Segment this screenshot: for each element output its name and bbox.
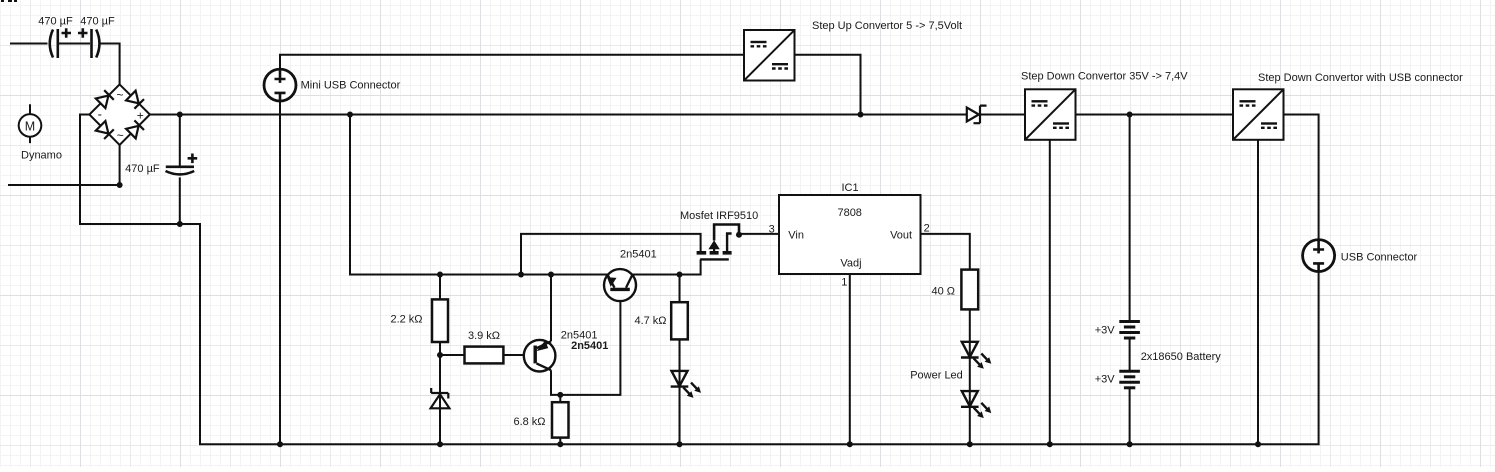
svg-text:~: ~ [116, 88, 123, 102]
svg-text:Power Led: Power Led [910, 370, 963, 382]
svg-text:2n5401: 2n5401 [571, 340, 608, 352]
svg-text:Mosfet IRF9510: Mosfet IRF9510 [680, 210, 758, 222]
svg-text:M: M [25, 120, 35, 134]
svg-text:Dynamo: Dynamo [21, 149, 62, 161]
svg-text:2n5401: 2n5401 [620, 249, 657, 261]
svg-text:2x18650 Battery: 2x18650 Battery [1141, 351, 1222, 363]
svg-text:2.2 kΩ: 2.2 kΩ [390, 313, 422, 325]
svg-text:7808: 7808 [837, 207, 861, 219]
svg-text:IC1: IC1 [841, 182, 858, 194]
svg-text:470 µF: 470 µF [125, 163, 160, 175]
svg-text:~: ~ [117, 128, 124, 142]
svg-text:Step Up Convertor 5 -> 7,5Volt: Step Up Convertor 5 -> 7,5Volt [812, 20, 962, 32]
svg-text:470 µF: 470 µF [38, 15, 73, 27]
svg-text:Mini USB Connector: Mini USB Connector [301, 79, 401, 91]
svg-text:+: + [137, 109, 144, 123]
svg-text:470 µF: 470 µF [80, 15, 115, 27]
svg-text:Step Down Convertor with USB c: Step Down Convertor with USB connector [1258, 72, 1463, 84]
svg-text:40 Ω: 40 Ω [931, 285, 955, 297]
svg-text:Vin: Vin [788, 229, 804, 241]
svg-text:6.8 kΩ: 6.8 kΩ [513, 416, 545, 428]
svg-text:+3V: +3V [1095, 373, 1116, 385]
svg-text:3.9 kΩ: 3.9 kΩ [468, 330, 500, 342]
svg-text:+3V: +3V [1095, 324, 1116, 336]
svg-text:3: 3 [769, 223, 775, 235]
svg-text:USB Connector: USB Connector [1341, 251, 1418, 263]
svg-text:4.7 kΩ: 4.7 kΩ [634, 315, 666, 327]
svg-text:1: 1 [841, 277, 847, 289]
svg-text:2: 2 [924, 222, 930, 234]
svg-text:-: - [98, 107, 102, 122]
svg-text:Step Down Convertor 35V -> 7,4: Step Down Convertor 35V -> 7,4V [1021, 71, 1188, 83]
svg-text:Vadj: Vadj [840, 258, 861, 270]
svg-text:Vout: Vout [890, 229, 912, 241]
